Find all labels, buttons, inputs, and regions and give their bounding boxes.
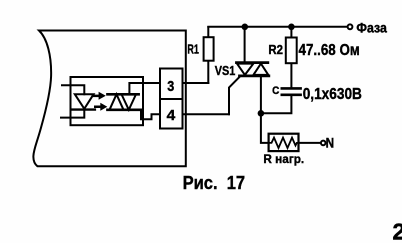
VS1 MT2 lead: [244, 27, 246, 63]
node: rail / R2 junction: [288, 24, 295, 31]
VS1 bottom bar: [240, 75, 269, 78]
diode D1 (IR LED): [73, 94, 95, 109]
light arrow 2: [94, 103, 107, 111]
svg-text:Рис.: Рис.: [183, 172, 218, 193]
svg-text:R2: R2: [268, 42, 283, 57]
VS1 top bar: [237, 61, 268, 64]
node: VS1 MT1 / C / load junction: [258, 110, 265, 117]
svg-text:17: 17: [227, 172, 245, 193]
svg-text:3: 3: [167, 78, 174, 95]
resistor R нагр. (load): [261, 113, 321, 166]
wire: phase top rail: [208, 26, 347, 28]
terminal N: [321, 135, 334, 150]
VS1 gate wire: [229, 77, 240, 114]
wire: photo-triac bottom terminal to pin 4: [141, 110, 229, 120]
svg-text:0,1x630В: 0,1x630В: [303, 86, 362, 103]
wire: LED cathode stub (pin 2): [61, 109, 84, 118]
VS1 left triangle (points down): [237, 64, 253, 75]
pin 4 box: [160, 99, 183, 129]
resistor R1: [187, 27, 213, 83]
svg-text:R1: R1: [187, 43, 199, 57]
svg-text:Фаза: Фаза: [356, 21, 387, 36]
photo-triac bottom bar: [108, 108, 142, 111]
capacitor C: [261, 85, 362, 113]
wire: LED anode stub (pin 1): [62, 85, 84, 94]
pin 3 box: [160, 69, 183, 100]
photo-triac left triangle (points up): [110, 94, 124, 110]
photo-triac (inside U1): top bar: [108, 93, 139, 96]
svg-text:47..68 Ом: 47..68 Ом: [299, 42, 360, 59]
resistor R2: [268, 27, 359, 88]
node: rail / VS1 junction: [242, 24, 249, 31]
wire: photo-triac top terminal to pin 3: [129, 83, 208, 94]
light arrow 1: [92, 92, 106, 100]
svg-text:C: C: [272, 85, 279, 97]
photo-triac right triangle (points down): [122, 94, 137, 110]
terminal Фаза: [348, 21, 388, 36]
svg-text:N: N: [326, 135, 335, 150]
svg-text:R нагр.: R нагр.: [263, 152, 304, 166]
triac VS1: [215, 27, 269, 115]
VS1 MT1 lead: [260, 76, 262, 113]
module box (optocoupler module outline, torn left edge): [33, 31, 185, 167]
svg-text:2: 2: [392, 218, 402, 243]
svg-text:4: 4: [167, 107, 176, 124]
VS1 right triangle (points up): [253, 64, 268, 75]
svg-text:VS1: VS1: [215, 63, 236, 78]
optocoupler U1 inner box: [71, 77, 144, 125]
